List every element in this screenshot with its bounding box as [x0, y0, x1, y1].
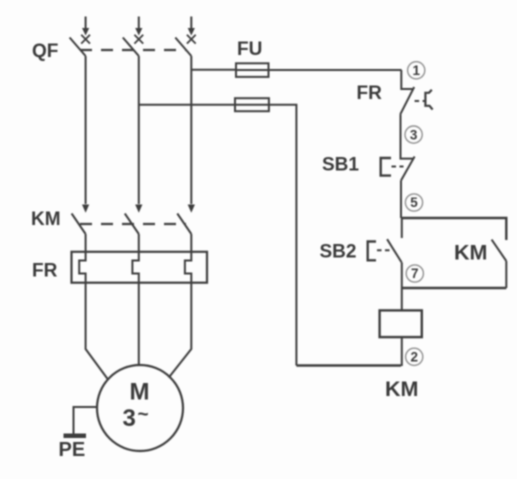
SB1 plunger dashed link: [392, 166, 404, 168]
breaker QF linkage dashed: [80, 49, 186, 51]
wire tee2 to coil: [401, 288, 403, 310]
contactor KM pole 2: [125, 205, 143, 253]
fuse FU1: [236, 63, 269, 77]
wire coil to bottom: [401, 337, 403, 366]
motor M circle: [97, 365, 183, 451]
node 5: [405, 194, 422, 211]
svg-text:~: ~: [138, 405, 149, 426]
wire bottom return: [296, 364, 401, 366]
wire SB1 to tee node5: [400, 181, 402, 219]
SB1 NC contact blade: [401, 157, 415, 181]
breaker QF pole 1 blade: [70, 38, 86, 57]
FR heater element phase 2: [132, 252, 138, 283]
FR thermal release hook: [425, 90, 432, 110]
wire L2 QF to KM: [138, 56, 140, 204]
svg-text:3: 3: [410, 127, 418, 142]
node 1: [408, 62, 425, 79]
node 7: [406, 265, 423, 282]
KM aux bottom terminal: [505, 261, 507, 288]
FR NC contact seat: [401, 88, 413, 89]
svg-text:KM: KM: [31, 209, 61, 230]
wire phase1 FR to motor: [86, 283, 108, 380]
contactor KM linkage dashed: [80, 223, 186, 225]
SB1 NC contact seat: [401, 158, 414, 159]
SB2 NO contact blade: [387, 239, 402, 262]
wire FU1 to node 1 corner: [269, 69, 402, 71]
right rail node1 corner to FR contact: [400, 70, 402, 88]
svg-text:FR: FR: [32, 261, 58, 282]
FR heater element phase 1: [79, 252, 85, 283]
breaker QF pole 3 blade: [175, 38, 191, 57]
svg-text:FU: FU: [237, 39, 262, 60]
SB2 plunger dashed link: [377, 249, 390, 251]
svg-text:5: 5: [410, 195, 418, 210]
contactor KM pole 3: [177, 205, 195, 253]
wire FR to SB1: [400, 114, 402, 158]
wire motor to PE: [74, 407, 98, 434]
svg-text:FR: FR: [357, 83, 383, 104]
thermal relay FR heater box: [72, 252, 208, 283]
FR heater element phase 3: [185, 252, 191, 283]
KM aux contact blade: [492, 240, 507, 261]
wire tee to SB2 top: [401, 218, 403, 238]
KM coil: [380, 310, 422, 337]
supply arrow L2: [134, 17, 143, 44]
node 3: [405, 126, 422, 143]
svg-text:SB2: SB2: [320, 242, 357, 263]
svg-text:KM: KM: [454, 241, 487, 265]
wire phase2 FR to motor: [138, 283, 140, 366]
wire phase3 FR to motor: [169, 283, 192, 378]
fuse FU2: [235, 98, 269, 111]
wire L1 QF to KM: [85, 56, 87, 204]
wire tap L2 to fuse FU2: [139, 104, 235, 106]
svg-text:PE: PE: [59, 439, 86, 461]
contactor KM pole 1: [72, 205, 90, 253]
wire L3 QF to KM: [190, 56, 192, 204]
svg-text:M: M: [130, 379, 150, 406]
branch wire KM aux to tee2: [402, 287, 507, 289]
svg-text:2: 2: [410, 350, 418, 365]
svg-text:7: 7: [411, 266, 419, 281]
svg-text:SB1: SB1: [322, 155, 359, 176]
supply arrow L1: [81, 17, 90, 44]
supply arrow L3: [187, 17, 196, 44]
SB1 button plunger: [381, 158, 391, 176]
svg-text:KM: KM: [385, 377, 418, 401]
breaker QF pole 2 blade: [123, 38, 139, 57]
wire SB2 to tee2: [401, 262, 403, 288]
PE ground bar: [64, 434, 87, 439]
svg-text:3: 3: [123, 405, 136, 432]
FR NC contact blade: [400, 87, 414, 114]
branch wire node5 to KM aux top: [401, 218, 506, 240]
wire tap L3 to fuse FU1: [191, 69, 236, 71]
svg-text:QF: QF: [32, 41, 58, 62]
SB2 button plunger: [368, 242, 376, 261]
wire FU2 to left control rail: [269, 105, 297, 366]
FR release dashed link: [415, 100, 426, 102]
node 2: [406, 348, 423, 365]
svg-text:1: 1: [412, 63, 420, 78]
